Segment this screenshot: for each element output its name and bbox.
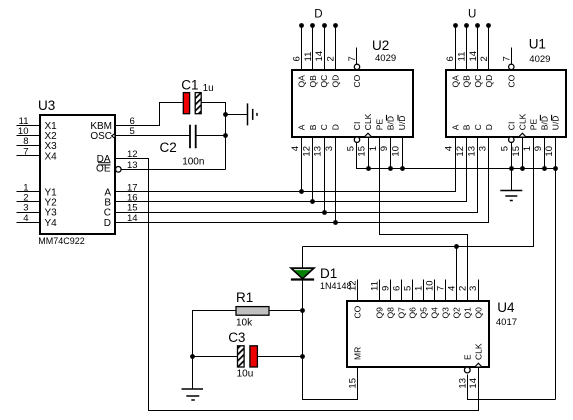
svg-text:15: 15 (511, 146, 522, 157)
svg-text:4017: 4017 (496, 317, 517, 328)
U1 CLK triangle (519, 133, 525, 136)
svg-text:1: 1 (368, 146, 379, 151)
wire U4 Q7 stub (401, 280, 403, 301)
wire U1 QD up (488, 26, 490, 71)
ground (C3) (182, 389, 204, 400)
U2 CO bubble (354, 64, 359, 69)
svg-text:14: 14 (314, 51, 325, 62)
svg-text:B/D: B/D (386, 116, 396, 130)
svg-text:12: 12 (347, 280, 358, 291)
wire U1 CO stub (511, 48, 513, 65)
svg-text:9: 9 (379, 146, 390, 151)
wire D1 anode (302, 247, 304, 269)
svg-text:U: U (468, 9, 476, 21)
svg-text:Q0: Q0 (473, 307, 483, 319)
svg-text:1: 1 (522, 146, 533, 151)
svg-text:CO: CO (352, 305, 362, 318)
wire ground stub top (226, 114, 248, 116)
capacitor C1 1u (181, 78, 213, 114)
wire U1 QA up to node U (455, 26, 457, 71)
svg-text:U2: U2 (372, 38, 389, 53)
svg-text:D: D (330, 124, 340, 130)
pin X2 stub (17, 135, 41, 137)
resistor R1 10k (236, 290, 269, 329)
wire U2 QB up (312, 26, 314, 71)
svg-text:Q3: Q3 (440, 307, 450, 319)
wire U1 PE to D1 (303, 137, 534, 247)
pin X3 stub (17, 145, 41, 147)
wire bus A (115, 137, 456, 192)
svg-text:4: 4 (444, 146, 455, 151)
wire D1 cathode down to MR (303, 280, 358, 400)
svg-text:B: B (462, 124, 472, 130)
svg-text:X4: X4 (45, 151, 58, 162)
svg-text:A: A (297, 124, 307, 130)
svg-text:4: 4 (290, 146, 301, 151)
svg-text:9: 9 (380, 286, 391, 291)
svg-text:QD: QD (330, 75, 340, 88)
wire OSC to C2 (115, 135, 191, 137)
svg-text:11: 11 (369, 281, 380, 291)
svg-text:A: A (450, 124, 460, 130)
svg-text:4: 4 (23, 213, 28, 224)
svg-text:13: 13 (313, 146, 324, 157)
svg-text:1: 1 (413, 286, 424, 291)
svg-text:D: D (484, 124, 494, 130)
svg-text:CLK: CLK (518, 113, 528, 130)
junction bus B / U2.B (310, 199, 315, 204)
svg-text:QB: QB (462, 75, 472, 88)
wire U2 C down (324, 137, 326, 213)
wire U1 U/D down right side (555, 137, 557, 400)
U2 CLK triangle (365, 133, 371, 136)
wire U1 B/D down (544, 137, 546, 169)
svg-text:9: 9 (533, 146, 544, 151)
svg-text:6: 6 (391, 286, 402, 291)
svg-text:7: 7 (23, 146, 28, 157)
IC U4 4017 (347, 280, 517, 388)
wire U2 D down (335, 137, 337, 223)
svg-text:QD: QD (484, 75, 494, 88)
wire CI bus (357, 143, 556, 169)
svg-text:10: 10 (424, 280, 435, 291)
wire U2 PE to U4 Q1 (380, 137, 468, 301)
U4 CLK triangle (475, 363, 481, 366)
svg-text:MR: MR (352, 347, 362, 360)
junction bus D / U2.D (333, 220, 338, 225)
svg-text:U/D: U/D (551, 116, 561, 131)
wire U1 CI to ground (511, 169, 513, 191)
svg-text:4: 4 (446, 286, 457, 291)
wire C3 ground stem (192, 357, 194, 389)
svg-text:CI: CI (352, 122, 362, 131)
svg-text:3: 3 (324, 146, 335, 151)
ground (top, near C1) (248, 103, 258, 125)
svg-text:QA: QA (450, 75, 460, 88)
IC U2 4029 (290, 38, 413, 156)
svg-text:2: 2 (479, 56, 490, 61)
svg-text:15: 15 (357, 146, 368, 157)
wire U1 QC up (477, 26, 479, 71)
svg-text:B/D: B/D (540, 116, 550, 130)
pin Y3 stub (17, 212, 41, 214)
svg-text:15: 15 (347, 378, 358, 389)
wire U2 QD up (335, 26, 337, 71)
wire U4 Q3 stub (445, 280, 447, 301)
svg-text:Q5: Q5 (418, 307, 428, 319)
junction C3/ground (190, 354, 195, 359)
svg-text:Y4: Y4 (45, 218, 58, 229)
svg-text:U3: U3 (38, 98, 55, 113)
svg-text:5: 5 (500, 146, 511, 151)
svg-text:C1: C1 (181, 78, 198, 93)
svg-text:C: C (319, 124, 329, 130)
svg-text:7: 7 (435, 286, 446, 291)
svg-text:10k: 10k (236, 318, 253, 329)
capacitor C3 10u (228, 330, 257, 379)
wire C1 right to ground node (202, 103, 226, 170)
svg-text:QC: QC (473, 75, 483, 88)
junction C2/OSC (223, 133, 228, 138)
wire C2 right (196, 135, 226, 137)
junction R1/D1 (300, 308, 305, 313)
svg-text:2: 2 (457, 286, 468, 291)
pin X4 stub (17, 155, 41, 157)
U4 E bubble (464, 367, 470, 373)
wire bus D (115, 137, 489, 223)
svg-text:14: 14 (468, 51, 479, 62)
svg-text:Q1: Q1 (462, 307, 472, 319)
svg-text:Q8: Q8 (386, 307, 396, 319)
svg-text:4029: 4029 (375, 53, 396, 64)
wire U1 CI down (511, 143, 513, 169)
svg-text:C2: C2 (160, 140, 177, 155)
svg-text:10: 10 (391, 146, 402, 157)
svg-text:OSC: OSC (90, 131, 112, 142)
wire R1 right (269, 310, 303, 312)
wire U2 B/D down (390, 137, 392, 169)
U1 CO bubble (509, 64, 514, 69)
svg-text:Q9: Q9 (375, 307, 385, 319)
svg-text:CO: CO (352, 74, 362, 87)
svg-text:D: D (314, 9, 322, 21)
wire U4 CO stub (357, 280, 359, 301)
svg-text:13: 13 (466, 146, 477, 157)
svg-text:CI: CI (506, 122, 516, 131)
junction bus C / U2.C (322, 210, 327, 215)
U1 CI bubble (509, 137, 514, 142)
svg-text:C: C (473, 124, 483, 130)
svg-text:4029: 4029 (529, 54, 550, 65)
wire U4 Q6 stub (412, 280, 414, 301)
svg-text:U/D: U/D (397, 116, 407, 131)
svg-text:U1: U1 (529, 37, 546, 52)
wire C3 right (258, 356, 303, 358)
wire U1 QB up (466, 26, 468, 71)
svg-text:D: D (104, 218, 111, 229)
svg-text:PE: PE (375, 119, 385, 131)
U2 CI bubble (354, 137, 359, 142)
svg-text:3: 3 (478, 146, 489, 151)
svg-text:CO: CO (506, 74, 516, 87)
svg-text:3: 3 (468, 286, 479, 291)
svg-text:6: 6 (292, 56, 303, 61)
IC U1 4029 (444, 37, 566, 157)
wire R1 left (193, 311, 237, 357)
wire U2 CO stub (356, 48, 358, 65)
svg-text:100n: 100n (182, 157, 204, 168)
wire U2 CLK down (368, 137, 370, 169)
svg-text:5: 5 (402, 286, 413, 291)
wire bus C (115, 137, 478, 213)
svg-text:12: 12 (455, 146, 466, 157)
svg-text:R1: R1 (236, 290, 253, 305)
wire U2 QC up (324, 26, 326, 71)
svg-text:7: 7 (501, 56, 512, 61)
svg-text:PE: PE (529, 119, 539, 131)
junction C1/ground (223, 112, 228, 117)
wire U2 B down (312, 137, 314, 202)
wire U4 E to right side (468, 375, 556, 400)
wire bus B (115, 137, 467, 202)
pin Y1 stub (17, 191, 41, 193)
svg-text:1u: 1u (203, 83, 214, 94)
svg-text:Q6: Q6 (408, 307, 418, 319)
svg-text:11: 11 (303, 52, 314, 62)
ground (U1 CI) (500, 191, 522, 201)
wire U4 Q2 up (456, 247, 458, 301)
wire U4 Q9 stub (379, 280, 381, 301)
svg-text:14: 14 (468, 378, 479, 389)
wire C3 left (193, 356, 238, 358)
svg-text:QB: QB (308, 75, 318, 88)
wire U4 Q4 stub (434, 280, 436, 301)
wire U1 CLK down (522, 137, 524, 169)
svg-text:13: 13 (457, 378, 468, 389)
svg-text:13: 13 (127, 160, 138, 171)
wire U2 U/D down (402, 137, 404, 169)
svg-text:Q4: Q4 (429, 307, 439, 319)
pin Y2 stub (17, 201, 41, 203)
svg-text:Q2: Q2 (451, 307, 461, 319)
svg-text:QA: QA (297, 75, 307, 88)
svg-text:10: 10 (544, 146, 555, 157)
svg-text:6: 6 (445, 56, 456, 61)
svg-text:B: B (308, 124, 318, 130)
junction dots node U (453, 23, 491, 28)
svg-text:C3: C3 (228, 330, 245, 345)
wire U2 QA up to node D (301, 26, 303, 71)
svg-text:CLK: CLK (473, 343, 483, 360)
wire U4 Q5 stub (423, 280, 425, 301)
OSC input arrow (112, 134, 115, 139)
junction dots node D (299, 23, 338, 28)
junction PE/Q2 (454, 244, 459, 249)
svg-text:10u: 10u (237, 368, 254, 379)
svg-text:E: E (462, 354, 472, 360)
svg-text:U4: U4 (497, 300, 515, 315)
wire DA down to bottom and U4 CLK (115, 159, 479, 411)
svg-text:14: 14 (127, 213, 138, 224)
svg-text:12: 12 (127, 149, 138, 160)
svg-text:Q7: Q7 (397, 307, 407, 319)
svg-text:7: 7 (347, 56, 358, 61)
junction CI bus dots (366, 166, 558, 171)
svg-text:11: 11 (457, 52, 468, 62)
IC U3 MM74C922 (18, 98, 138, 246)
junction bus A / U2.A (299, 189, 304, 194)
wire U4 Q0 stub (478, 280, 480, 301)
pin Y4 stub (17, 222, 41, 224)
OE bubble (116, 167, 122, 173)
svg-text:MM74C922: MM74C922 (38, 236, 85, 246)
wire KBM to C1 (115, 103, 183, 126)
svg-text:D1: D1 (320, 266, 337, 281)
svg-text:2: 2 (325, 56, 336, 61)
svg-text:CLK: CLK (363, 113, 373, 130)
wire U2 A down (301, 137, 303, 192)
svg-text:5: 5 (346, 146, 357, 151)
pin X1 stub (17, 125, 41, 127)
capacitor C2 100n (160, 125, 205, 168)
svg-text:5: 5 (130, 126, 135, 137)
junction C3/D1 (300, 354, 305, 359)
svg-text:12: 12 (301, 146, 312, 157)
wire U4 Q8 stub (390, 280, 392, 301)
svg-text:QC: QC (319, 75, 329, 88)
diode D1 1N4148 (291, 266, 352, 291)
wire OE to C2 node (122, 169, 226, 171)
